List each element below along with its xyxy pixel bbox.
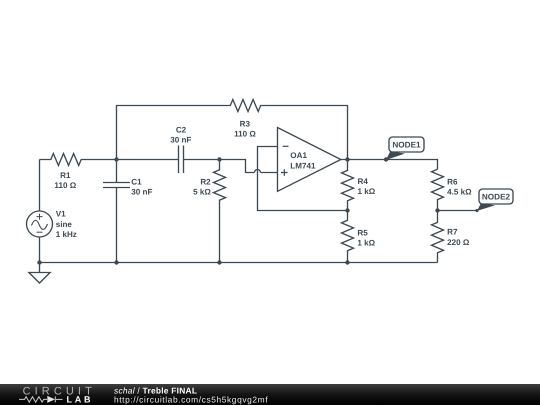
svg-text:R1: R1	[60, 171, 71, 180]
svg-text:sine: sine	[56, 220, 73, 229]
svg-text:1 kHz: 1 kHz	[56, 230, 77, 239]
svg-text:NODE1: NODE1	[392, 141, 421, 150]
svg-text:30 nF: 30 nF	[131, 188, 152, 197]
svg-text:R6: R6	[447, 177, 458, 186]
svg-text:NODE2: NODE2	[482, 193, 511, 202]
svg-text:V1: V1	[56, 210, 66, 219]
svg-text:LAB: LAB	[67, 395, 94, 405]
svg-text:LM741: LM741	[290, 161, 316, 170]
svg-text:R4: R4	[358, 177, 369, 186]
svg-text:R2: R2	[200, 178, 211, 187]
svg-text:R5: R5	[357, 228, 368, 237]
svg-text:4.5 kΩ: 4.5 kΩ	[447, 187, 472, 196]
svg-text:OA1: OA1	[290, 151, 307, 160]
svg-text:1 kΩ: 1 kΩ	[357, 238, 375, 247]
svg-text:110 Ω: 110 Ω	[54, 181, 76, 190]
svg-text:1 kΩ: 1 kΩ	[358, 187, 376, 196]
svg-text:110 Ω: 110 Ω	[234, 130, 256, 139]
svg-text:5 kΩ: 5 kΩ	[193, 188, 211, 197]
svg-text:C1: C1	[131, 178, 142, 187]
svg-text:220 Ω: 220 Ω	[447, 238, 470, 247]
svg-text:C2: C2	[176, 126, 187, 135]
svg-text:R3: R3	[240, 119, 251, 128]
svg-text:http://circuitlab.com/cs5h5kgq: http://circuitlab.com/cs5h5kgqvg2mf	[114, 395, 268, 405]
svg-text:R7: R7	[447, 228, 458, 237]
svg-text:30 nF: 30 nF	[170, 135, 191, 144]
